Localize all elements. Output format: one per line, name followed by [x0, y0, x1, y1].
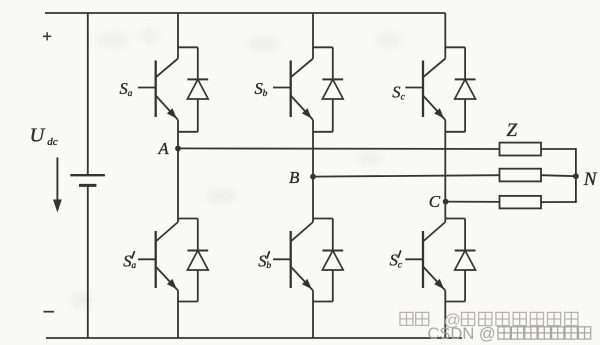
- plus terminal: [43, 32, 51, 40]
- wire phase B: [313, 175, 500, 176]
- svg-text:B: B: [289, 168, 300, 187]
- svg-text:C: C: [429, 192, 441, 211]
- transistor Sc' (IGBT bottom): [405, 222, 445, 291]
- resistor Z_b (load phase B): [500, 169, 542, 182]
- svg-text:a: a: [128, 89, 133, 99]
- svg-text:S: S: [258, 251, 266, 270]
- svg-text:c: c: [398, 261, 403, 271]
- svg-text:Z: Z: [507, 120, 518, 141]
- svg-text:S: S: [120, 79, 128, 98]
- watermark line 1 (知乎 @我是一只二极管): [400, 311, 578, 330]
- wire leg c midpoint: [444, 120, 446, 222]
- transistor Sa (IGBT top): [138, 59, 178, 120]
- diode Dc' bottom freewheel: [445, 219, 475, 302]
- label S_b': [258, 251, 271, 271]
- svg-text:a: a: [131, 261, 136, 271]
- svg-text:S: S: [392, 83, 400, 102]
- svg-text:CSDN @: CSDN @: [428, 325, 496, 343]
- diode Db' bottom freewheel: [313, 219, 343, 302]
- wire phase A: [178, 147, 500, 150]
- svg-text:S: S: [255, 79, 263, 98]
- wire leg c collector from bus: [444, 13, 446, 59]
- svg-text:N: N: [583, 169, 598, 190]
- transistor Sc (IGBT top): [405, 59, 445, 120]
- wire bottom DC bus: [46, 337, 462, 339]
- wire leg b emitter to bottom bus: [312, 291, 314, 339]
- wire battery top: [87, 12, 89, 175]
- label S_b: [255, 79, 268, 99]
- svg-text:b: b: [266, 261, 271, 271]
- svg-text:dc: dc: [47, 136, 58, 148]
- node B: [310, 174, 316, 180]
- diode Dc top freewheel: [445, 47, 475, 132]
- wire leg c emitter to bottom bus: [444, 291, 446, 339]
- wire leg a collector from bus: [177, 13, 179, 59]
- resistor Z_c (load phase C): [500, 196, 542, 209]
- wire load C to N: [541, 201, 576, 203]
- svg-text:U: U: [30, 125, 46, 147]
- svg-text:c: c: [401, 93, 406, 103]
- wire leg b midpoint: [312, 120, 314, 222]
- node N: [573, 173, 579, 179]
- node A: [175, 146, 181, 152]
- wire phase C: [445, 201, 499, 203]
- label S_c: [392, 83, 405, 103]
- watermark line 2 (CSDN @我是一只二极管): [428, 325, 591, 343]
- svg-text:S: S: [390, 251, 398, 270]
- diode Da top freewheel: [178, 47, 208, 132]
- arrow U_dc direction: [53, 157, 62, 212]
- diode Db top freewheel: [313, 47, 343, 132]
- svg-text:A: A: [158, 139, 170, 158]
- wire leg a emitter to bottom bus: [177, 291, 179, 339]
- label S_a: [120, 79, 133, 99]
- wire load B to N: [541, 175, 576, 176]
- node C: [443, 199, 449, 205]
- resistor Z_a (load phase A): [500, 143, 542, 156]
- svg-text:b: b: [263, 89, 268, 99]
- diode Da' bottom freewheel: [178, 219, 208, 302]
- label S_c': [390, 251, 403, 271]
- wire leg a midpoint: [177, 120, 179, 222]
- wire leg b collector from bus: [312, 13, 314, 59]
- wire load A to N: [541, 148, 576, 150]
- battery U_dc source: [70, 175, 105, 185]
- transistor Sb (IGBT top): [273, 59, 313, 120]
- transistor Sb' (IGBT bottom): [273, 222, 313, 291]
- wire top DC bus: [45, 12, 445, 14]
- wire battery bottom: [87, 185, 89, 338]
- minus terminal: [43, 311, 54, 313]
- wire N vertical: [575, 148, 577, 203]
- transistor Sa' (IGBT bottom): [138, 222, 178, 291]
- svg-text:S: S: [123, 251, 131, 270]
- label S_a': [123, 251, 136, 271]
